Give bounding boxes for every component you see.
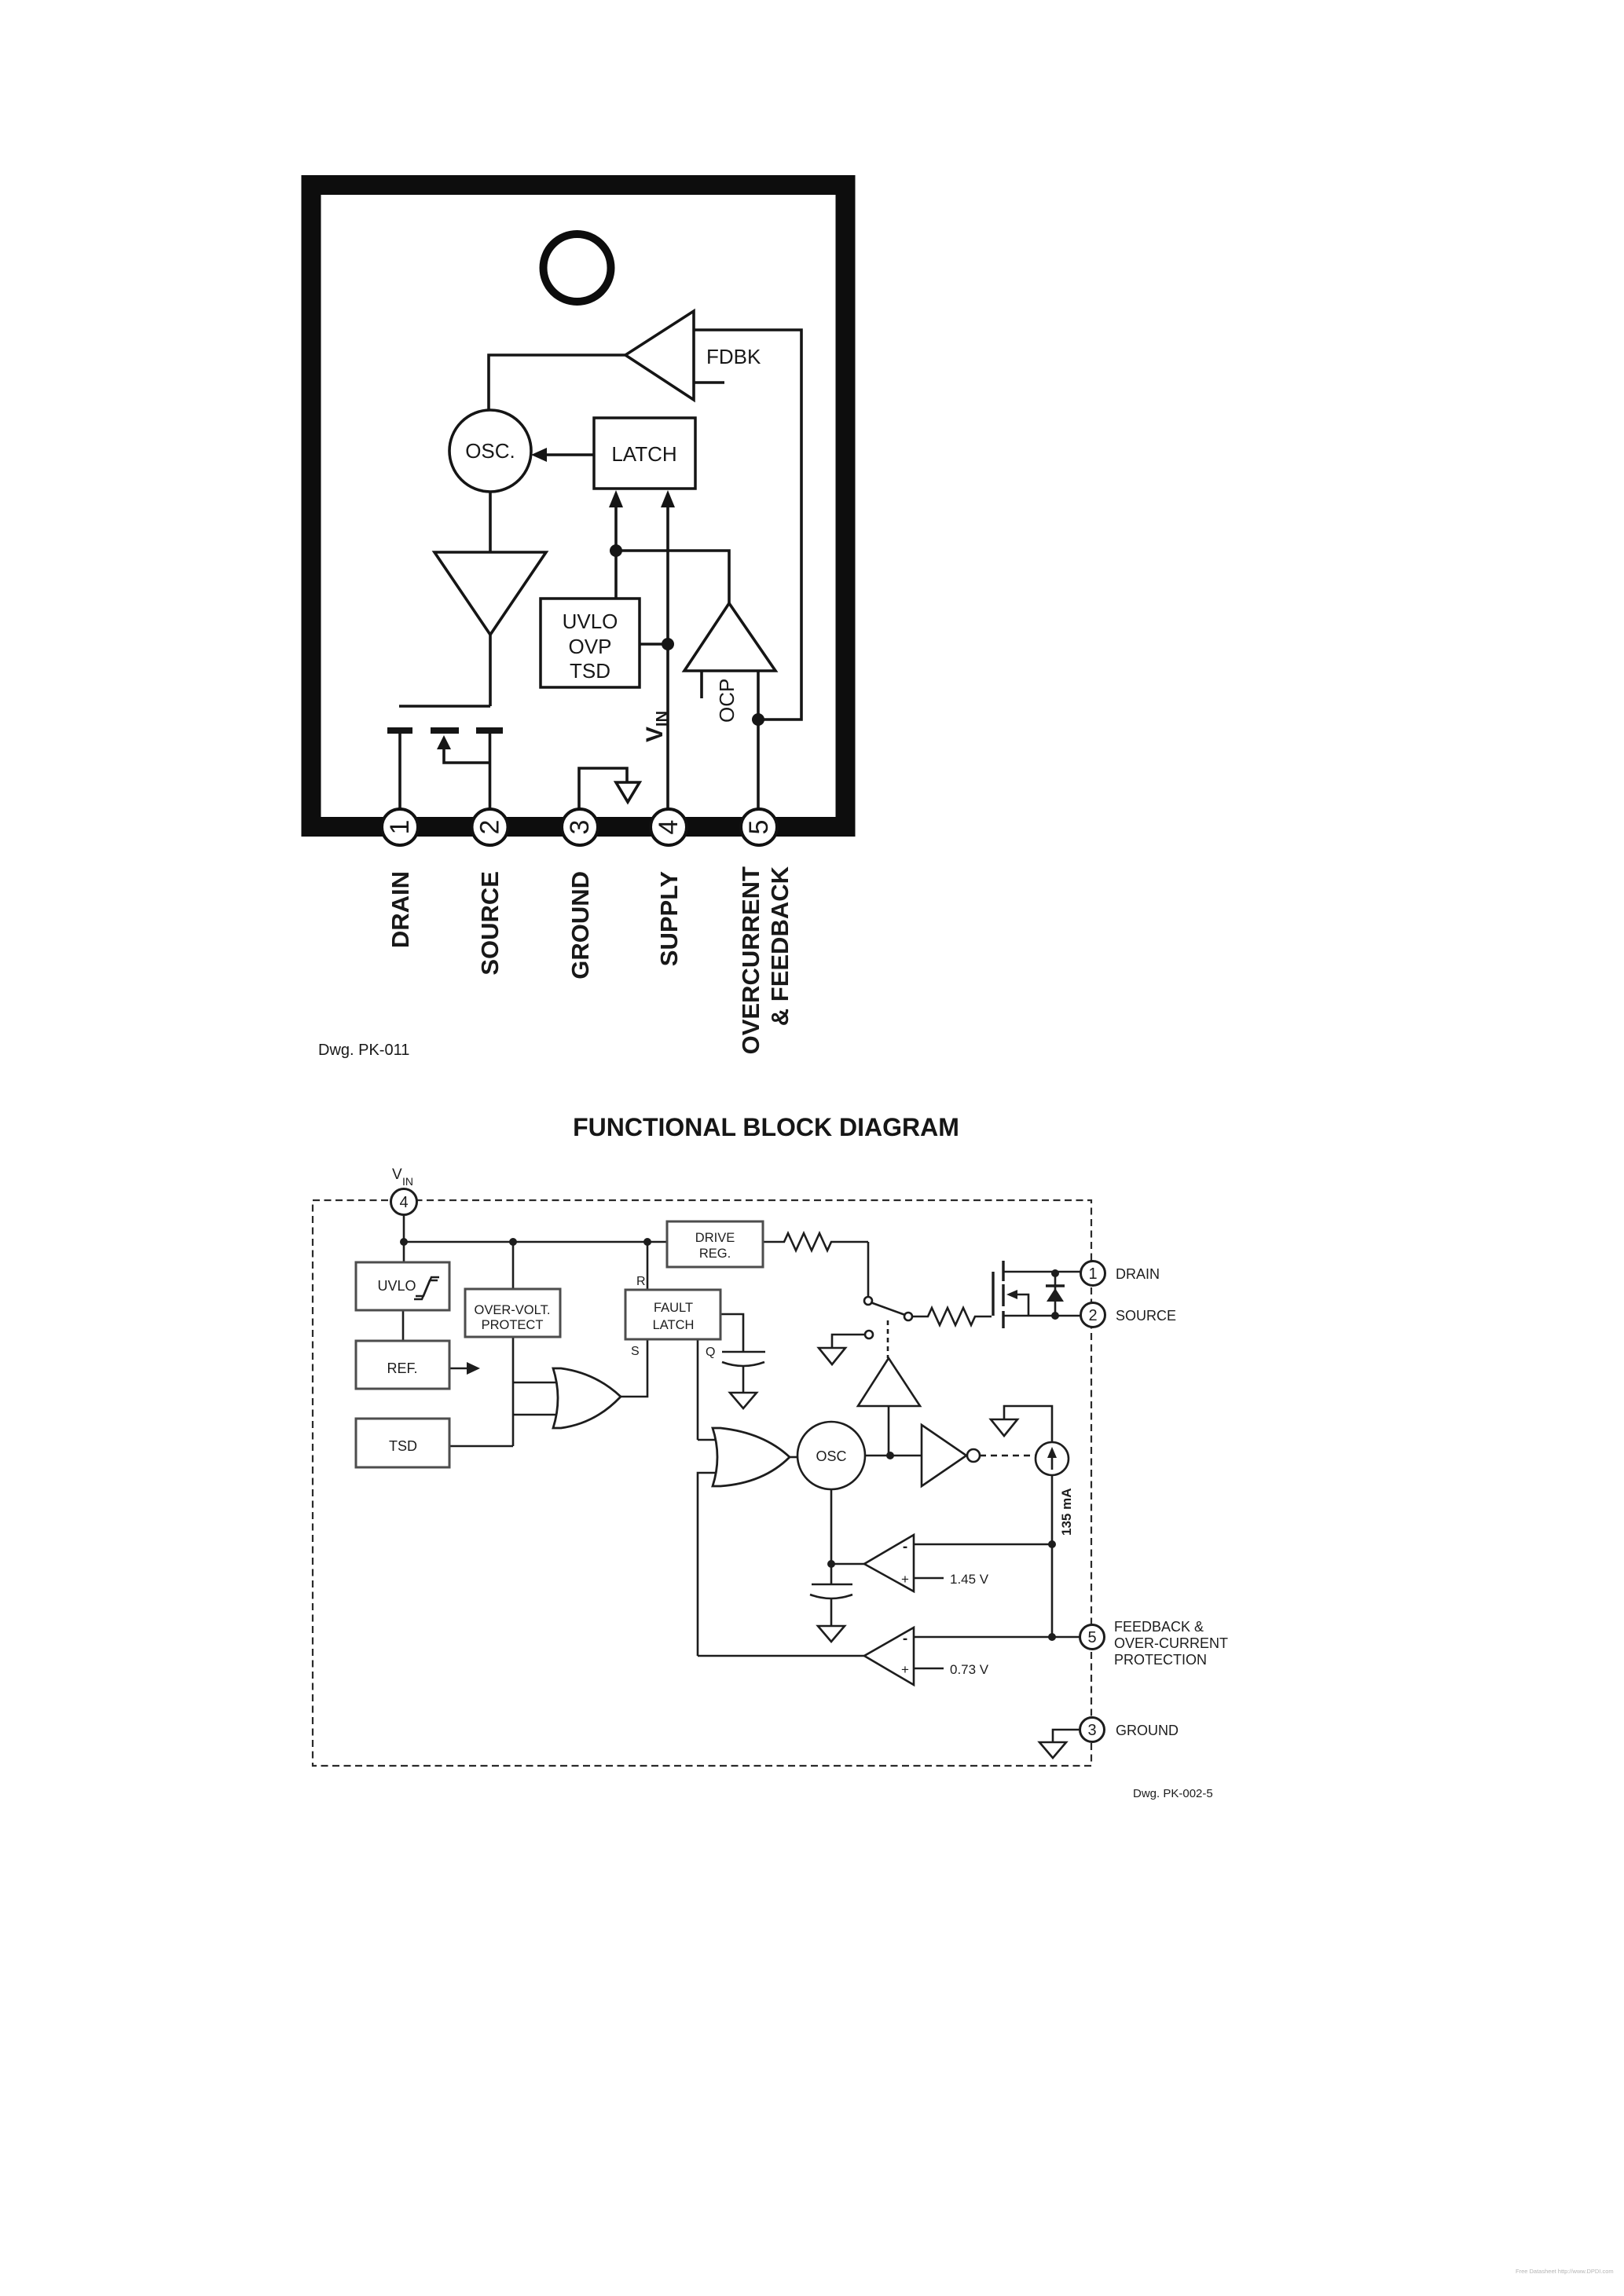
svg-text:5: 5 xyxy=(744,820,774,835)
arrowhead REF output xyxy=(467,1362,480,1375)
wire comp1 minus xyxy=(914,1543,1050,1546)
dashed boundary of IC xyxy=(313,1200,1091,1766)
arrowhead LATCH to OSC xyxy=(531,448,547,462)
wire node junction to OCP output xyxy=(616,551,729,603)
wire pin5 node to pin 5 xyxy=(757,720,760,810)
wire dashed: switch to driver amp xyxy=(887,1320,889,1358)
node junction (pin5/OCP/FDBK) xyxy=(752,713,764,726)
wire OSC to driver xyxy=(489,492,492,552)
wire OVP/TSD riser xyxy=(512,1337,515,1446)
wire REF output xyxy=(449,1368,470,1370)
pin 2 xyxy=(472,809,508,845)
pin 4 (VIN) xyxy=(391,1189,417,1215)
svg-text:R: R xyxy=(636,1275,646,1288)
block TSD xyxy=(356,1419,449,1467)
filled marks bottom diagram xyxy=(400,1238,1064,1641)
current source arrow shaft xyxy=(1051,1453,1054,1470)
arrowhead body of Q1 xyxy=(1006,1290,1017,1299)
wire C2 to ground xyxy=(830,1599,833,1626)
wire rail to FAULT LATCH R xyxy=(647,1242,649,1290)
svg-text:Q: Q xyxy=(706,1346,715,1359)
wire supply rail xyxy=(404,1241,667,1243)
svg-text:PROTECT: PROTECT xyxy=(482,1318,544,1332)
capacitor C2 top plate xyxy=(812,1584,852,1586)
wire FDBK minus stub xyxy=(694,381,724,384)
svg-text:SOURCE: SOURCE xyxy=(1116,1308,1176,1324)
wire body to source xyxy=(1012,1294,1028,1316)
svg-text:OVER-VOLT.: OVER-VOLT. xyxy=(475,1303,551,1317)
svg-text:& FEEDBACK: & FEEDBACK xyxy=(766,866,794,1026)
wire driver output to gate xyxy=(489,635,492,706)
pin 1 (DRAIN) xyxy=(1081,1262,1105,1286)
capacitor C1 top plate xyxy=(722,1351,765,1353)
inverter U3 xyxy=(922,1425,966,1486)
wire comp2 minus xyxy=(914,1636,1050,1639)
svg-text:OSC: OSC xyxy=(816,1448,846,1464)
wire FAULT LATCH to timing cap xyxy=(720,1314,743,1352)
mounting hole xyxy=(544,234,611,302)
switch SW1 lower throw contact (to gnd) xyxy=(865,1331,873,1338)
svg-text:-: - xyxy=(903,1539,907,1555)
arrowhead UVLO to LATCH xyxy=(609,490,623,507)
arrowhead body (substrate) of Q1 xyxy=(437,735,451,749)
transistor Q1 channel segments xyxy=(1002,1261,1004,1281)
svg-text:2: 2 xyxy=(475,820,505,835)
svg-text:3: 3 xyxy=(565,820,595,835)
arrowhead current source xyxy=(1047,1447,1057,1458)
block DRIVE REG. xyxy=(667,1221,763,1267)
transistor Q1 gate bar xyxy=(992,1272,994,1316)
svg-text:2: 2 xyxy=(1088,1307,1097,1324)
arrowheads, junction dots (filled) xyxy=(437,448,764,749)
svg-text:OVER-CURRENT: OVER-CURRENT xyxy=(1114,1635,1228,1651)
driver amp triangle (up) xyxy=(858,1358,920,1406)
wire body to source xyxy=(444,746,489,763)
transistor Q1 body contact bar xyxy=(431,727,459,734)
oscillator OSC xyxy=(797,1422,865,1489)
pin circles on package edge xyxy=(382,809,777,845)
svg-text:DRIVE: DRIVE xyxy=(695,1231,735,1245)
wire lower throw to ground xyxy=(832,1335,865,1348)
svg-text:1: 1 xyxy=(1088,1265,1097,1283)
wire drain stub xyxy=(1003,1271,1080,1273)
switch SW1 throw contact (to gate) xyxy=(904,1313,912,1320)
wire OR1 input 1 xyxy=(513,1382,563,1384)
junction dot rail at OVP xyxy=(509,1238,517,1246)
wire UVLO to REF xyxy=(402,1310,405,1341)
switch SW1 pole contact xyxy=(864,1297,872,1305)
wire OSC bottom to cap xyxy=(830,1489,833,1584)
svg-text:+: + xyxy=(901,1662,909,1677)
wire LATCH output to OSC (arrow) xyxy=(544,453,594,456)
resistor R1 (drive) xyxy=(763,1233,868,1251)
arrowhead supply to LATCH xyxy=(661,490,675,507)
svg-text:UVLO: UVLO xyxy=(563,610,618,633)
ground symbol below C1 xyxy=(730,1393,757,1408)
svg-text:1.45 V: 1.45 V xyxy=(950,1572,989,1587)
inverter bubble xyxy=(967,1449,980,1462)
svg-text:GROUND: GROUND xyxy=(1116,1723,1179,1738)
comparator 1.45V xyxy=(864,1535,914,1591)
svg-text:FDBK: FDBK xyxy=(706,345,761,368)
wire Q output down xyxy=(697,1339,699,1440)
wire pin3 ground xyxy=(1053,1730,1081,1742)
bottom diagram boxes (gray border) xyxy=(356,1221,763,1467)
OR gates xyxy=(553,1368,790,1486)
svg-text:TSD: TSD xyxy=(570,659,610,683)
svg-text:GROUND: GROUND xyxy=(566,871,594,980)
wire current source to ground bracket xyxy=(1004,1406,1052,1442)
svg-text:5: 5 xyxy=(1087,1629,1096,1646)
junction dot OSC cap node xyxy=(827,1560,835,1568)
pin 4 xyxy=(651,809,687,845)
svg-text:TSD: TSD xyxy=(389,1438,417,1454)
node junction (UVLO/OCP) xyxy=(610,544,622,557)
svg-text:SUPPLY: SUPPLY xyxy=(655,871,683,967)
wire supply pin4 to LATCH (with arrow) xyxy=(666,503,669,810)
pin 1 xyxy=(382,809,418,845)
junction dot OSC node xyxy=(886,1452,894,1459)
wire OR1 input 2 xyxy=(513,1414,563,1416)
wire comp2 plus stub xyxy=(914,1668,944,1670)
wire OSC to node xyxy=(865,1455,890,1457)
junction dot source xyxy=(1051,1312,1059,1320)
block UVLO/OVP/TSD xyxy=(541,599,640,687)
wire FDBK output to OSC xyxy=(489,355,625,410)
latch U2 xyxy=(594,418,695,489)
transistor Q1 source contact bar xyxy=(476,727,503,734)
wire node to pin 5 xyxy=(1050,1636,1080,1639)
wire R1 to switch pole xyxy=(867,1242,870,1297)
svg-text:Free Datasheet http://www.DPDI: Free Datasheet http://www.DPDI.com xyxy=(1516,2268,1614,2275)
wire comp2 output xyxy=(698,1655,864,1657)
svg-text:SOURCE: SOURCE xyxy=(476,871,504,976)
svg-text:FEEDBACK &: FEEDBACK & xyxy=(1114,1619,1204,1635)
wire comp2 output riser to OR2 input 2 xyxy=(698,1473,724,1656)
svg-text:0.73 V: 0.73 V xyxy=(950,1662,989,1677)
wire OR1 output to S xyxy=(621,1339,647,1397)
wire Q to OR2 input 1 xyxy=(698,1439,724,1441)
block REF. xyxy=(356,1341,449,1389)
svg-text:LATCH: LATCH xyxy=(653,1318,695,1332)
wire FDBK plus input from pin5 loop xyxy=(694,330,801,720)
svg-text:1: 1 xyxy=(385,820,415,835)
block FAULT LATCH xyxy=(625,1290,720,1339)
svg-text:REG.: REG. xyxy=(699,1247,731,1261)
pin 3 xyxy=(562,809,598,845)
BOTTOM FUNCTIONAL BLOCK DIAGRAM xyxy=(313,1200,1091,1766)
svg-text:4: 4 xyxy=(654,820,684,835)
capacitor C1 curved plate xyxy=(722,1362,764,1366)
wire UVLO out to LATCH (with arrow) xyxy=(614,503,618,599)
body diode D1 connections xyxy=(1054,1272,1057,1316)
wire OCP plus to pin5 node xyxy=(757,671,760,720)
wire UVLO side tap to supply line xyxy=(640,643,668,646)
wire gate plate xyxy=(399,705,490,708)
svg-text:S: S xyxy=(631,1345,640,1358)
block UVLO xyxy=(356,1262,449,1310)
capacitor C2 curved plate xyxy=(810,1595,852,1598)
svg-text:OVP: OVP xyxy=(569,635,612,658)
svg-text:Dwg. PK-002-5: Dwg. PK-002-5 xyxy=(1133,1787,1213,1800)
svg-text:OSC.: OSC. xyxy=(465,439,515,463)
switch SW1 blade xyxy=(871,1302,905,1315)
pin 5 xyxy=(741,809,777,845)
svg-text:FUNCTIONAL BLOCK DIAGRAM: FUNCTIONAL BLOCK DIAGRAM xyxy=(573,1113,959,1141)
svg-text:DRAIN: DRAIN xyxy=(387,871,414,948)
ground symbol at pin 3 xyxy=(1039,1742,1066,1758)
junction dot comp2 minus / pin5 xyxy=(1048,1633,1056,1641)
OR gate OR2 output to OSC xyxy=(790,1456,797,1459)
package outline U1 (thick border) xyxy=(311,185,845,827)
TOP PACKAGE DIAGRAM xyxy=(311,185,845,827)
wire comp1 plus stub xyxy=(914,1577,944,1580)
wire current source down xyxy=(1051,1475,1054,1637)
ground symbol at current source xyxy=(991,1419,1017,1436)
svg-text:LATCH: LATCH xyxy=(611,442,676,466)
ground symbol below C2 xyxy=(818,1626,845,1642)
svg-text:V: V xyxy=(392,1166,402,1183)
OR gate OR2 xyxy=(713,1428,790,1486)
texts of top diagram xyxy=(318,345,794,1059)
oscillator OSC. xyxy=(449,410,531,492)
svg-text:VIN: VIN xyxy=(642,711,671,742)
current source I1 xyxy=(1036,1442,1069,1475)
OR gate OR1 xyxy=(553,1368,621,1428)
wire pin4 to rail xyxy=(403,1214,405,1262)
svg-text:DRAIN: DRAIN xyxy=(1116,1266,1160,1282)
resistor R2 (gate) xyxy=(912,1308,992,1325)
body diode D1 triangle xyxy=(1047,1288,1064,1302)
pin 3 (GROUND) xyxy=(1080,1718,1105,1742)
wire node to inverter xyxy=(890,1455,922,1457)
block OVER-VOLT. PROTECT xyxy=(465,1289,560,1337)
wire TSD output xyxy=(449,1445,513,1448)
pins of bottom diagram xyxy=(391,1189,1105,1742)
comparator FDBK (error amp) xyxy=(625,311,694,400)
hysteresis symbol inside UVLO xyxy=(414,1277,439,1299)
wire amp base to OSC node xyxy=(888,1406,890,1456)
svg-text:PROTECTION: PROTECTION xyxy=(1114,1652,1207,1668)
body diode D1 cathode bar xyxy=(1046,1284,1065,1287)
wire OCP minus stub xyxy=(700,671,703,698)
wire comp1 output to OSC cap node xyxy=(831,1563,864,1565)
svg-text:3: 3 xyxy=(1087,1722,1096,1739)
node junction (UVLO tap) xyxy=(662,638,674,650)
svg-text:135 mA: 135 mA xyxy=(1059,1489,1074,1536)
svg-text:UVLO: UVLO xyxy=(377,1278,416,1294)
svg-text:OCP: OCP xyxy=(715,679,739,723)
ground symbol at switch xyxy=(819,1348,845,1364)
ground symbol near pin 3 xyxy=(579,768,627,809)
pin 2 (SOURCE) xyxy=(1081,1303,1105,1327)
junction dot rail at pin4 xyxy=(400,1238,408,1246)
svg-text:FAULT: FAULT xyxy=(654,1301,693,1315)
junction dot drain xyxy=(1051,1269,1059,1277)
wire dashed inverter to current source xyxy=(980,1455,1036,1457)
svg-text:IN: IN xyxy=(402,1175,413,1188)
pin 5 (FEEDBACK) xyxy=(1080,1625,1105,1650)
wire rail to OVP xyxy=(512,1242,515,1289)
comparator 0.73V xyxy=(864,1628,914,1685)
driver buffer (triangle) xyxy=(434,552,546,635)
junction dot comp1 minus xyxy=(1048,1540,1056,1548)
wire C1 to ground xyxy=(742,1367,745,1393)
svg-text:-: - xyxy=(903,1631,907,1647)
wire drain to pin 1 xyxy=(398,734,401,810)
comparator OCP xyxy=(684,603,775,671)
wire source to pin 2 xyxy=(489,734,492,810)
svg-text:Dwg. PK-011: Dwg. PK-011 xyxy=(318,1042,409,1059)
texts of bottom diagram xyxy=(377,1166,1228,1800)
svg-text:4: 4 xyxy=(399,1194,408,1211)
wire source stub xyxy=(1003,1315,1080,1317)
junction dot rail at R xyxy=(643,1238,651,1246)
svg-text:+: + xyxy=(901,1572,909,1587)
svg-text:OVERCURRENT: OVERCURRENT xyxy=(737,866,764,1054)
svg-text:REF.: REF. xyxy=(387,1360,417,1376)
transistor Q1 drain contact bar xyxy=(387,727,412,734)
